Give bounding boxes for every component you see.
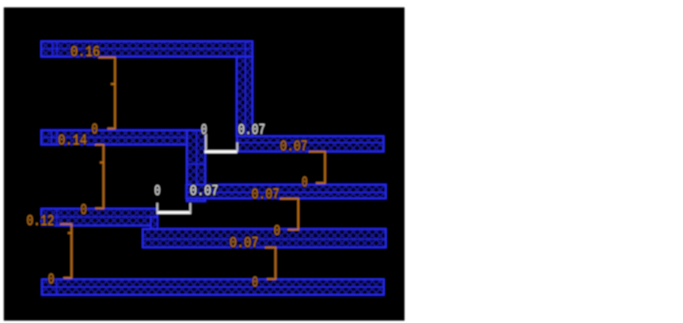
svg-text:0: 0 (92, 123, 98, 139)
tap line L3 (0.12 -> 0) (60, 224, 72, 278)
svg-text:0.07: 0.07 (238, 123, 265, 139)
svg-text:0: 0 (48, 272, 54, 288)
svg-text:0.07: 0.07 (280, 140, 308, 156)
svg-text:0.14: 0.14 (58, 133, 87, 149)
wire M1 connector bar4-to-barE (151, 217, 158, 239)
layout canvas (black) (4, 7, 405, 320)
tap line L2 (0.14 -> 0) (95, 145, 104, 209)
wire M1 bar3 (0.07 net upper right) (237, 136, 384, 151)
tap line L4 (0.07 bar3 -> 0 barD) (309, 152, 325, 183)
ruler R2 (white) (156, 203, 191, 214)
svg-text:0: 0 (154, 184, 160, 200)
svg-text:0.07: 0.07 (190, 184, 219, 200)
svg-text:0.07: 0.07 (230, 236, 259, 252)
wire M1 barG (bottom 0 net) (42, 279, 384, 295)
tap line L6 (0.07 barE -> 0 barG) (265, 248, 276, 280)
wire M1 bar2 (0.14 net) (41, 130, 191, 144)
wire M1 column A (bar2 to barD) (187, 130, 205, 201)
svg-text:0: 0 (252, 276, 258, 292)
svg-text:0.07: 0.07 (252, 188, 280, 204)
wire M1 bar4 (0.12 net) (41, 209, 157, 226)
tap line L1 (0.16 -> 0) (99, 58, 116, 129)
tap line L5 (0.07 barD -> 0 barE) (280, 199, 298, 230)
svg-text:0: 0 (302, 176, 308, 192)
svg-text:0.16: 0.16 (71, 45, 101, 61)
wire M1 column B (bar1 to bar3) (237, 41, 253, 151)
wire M1 bar1 (0.16 net) (41, 41, 252, 56)
svg-text:0: 0 (201, 123, 207, 139)
svg-text:0.12: 0.12 (27, 214, 55, 230)
svg-text:0: 0 (274, 224, 281, 240)
wire M1 barD (0.07 net mid right) (187, 185, 386, 199)
svg-text:0: 0 (81, 203, 87, 219)
ruler R1 (white) (205, 134, 239, 153)
wire M1 barE (0.07 net lower) (143, 229, 386, 247)
